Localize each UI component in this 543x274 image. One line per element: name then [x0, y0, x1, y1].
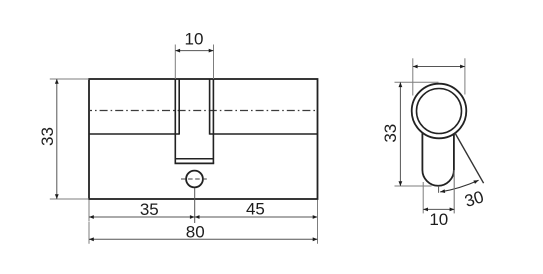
cam bottom upper line	[175, 158, 213, 160]
profile top dimension: left arrowhead	[413, 65, 418, 69]
svg-text:33: 33	[38, 127, 57, 146]
cylinder body front view	[89, 79, 318, 199]
profile top dimension: right arrowhead	[460, 65, 465, 69]
dimension 80: right extension line	[317, 200, 319, 244]
dimension 10 profile: right arrowhead	[450, 208, 455, 212]
dimension 10 top: right extension line	[213, 45, 215, 80]
dimension 33 profile: top arrowhead	[399, 82, 403, 87]
dimension 45: left arrowhead	[195, 215, 200, 219]
profile view inner circle	[417, 89, 462, 134]
cam slot inner right wall	[209, 79, 211, 135]
cam slot inner left wall	[178, 79, 180, 135]
dimension 10 profile: left extension line	[422, 182, 424, 213]
fixing screw hole circle	[186, 171, 203, 188]
dimension 80: left extension line	[88, 222, 90, 244]
angle arc right arrowhead	[473, 180, 478, 184]
svg-text:35: 35	[140, 200, 159, 219]
profile view stem outline	[422, 133, 454, 186]
dimension 80: left arrowhead	[89, 237, 94, 241]
dimension 33 left: dimension line	[56, 79, 58, 199]
dimension 35/45: left extension line	[88, 200, 90, 222]
svg-text:10: 10	[185, 30, 204, 49]
barrel bottom line right	[210, 133, 318, 135]
dimension 33 profile: bottom arrowhead	[399, 181, 403, 186]
dimension 33 profile: bottom extension line	[395, 185, 432, 187]
dimension 10 top: left arrowhead	[175, 49, 180, 53]
dimension 10 profile: dimension line	[423, 208, 454, 210]
dimension 10 top: left extension line	[174, 45, 176, 80]
dimension 10 profile: left arrowhead	[423, 208, 428, 212]
profile view outer circle	[412, 84, 467, 139]
dimension 10 top: right arrowhead	[209, 49, 214, 53]
profile top dimension: left extension line	[412, 58, 414, 95]
svg-text:45: 45	[246, 199, 265, 218]
angle arc left arrowhead	[440, 189, 445, 193]
cam slot outer left wall	[174, 79, 176, 163]
center axis dash-dot line	[89, 110, 318, 112]
dimension 33 left: top arrowhead	[55, 79, 59, 84]
dimension 35/45: middle extension line	[194, 188, 196, 223]
dimension 33 profile: top extension line	[395, 81, 439, 83]
svg-text:80: 80	[186, 223, 205, 242]
barrel bottom line left	[89, 133, 179, 135]
30 degree reference diagonal line	[455, 133, 484, 184]
dimension 33 left: top extension line	[50, 78, 89, 80]
dimension 35: left arrowhead	[89, 215, 94, 219]
dimension 33 left: bottom arrowhead	[55, 194, 59, 199]
dimension 33 profile: dimension line	[399, 82, 401, 186]
cam bottom lower line	[175, 162, 215, 164]
cam slot outer right wall	[212, 79, 214, 163]
svg-text:33: 33	[381, 124, 400, 143]
dimension 10 profile: right extension line	[453, 170, 455, 213]
dimension 35: right arrowhead	[190, 215, 195, 219]
profile top dimension: dimension line	[413, 66, 465, 68]
dimension 80: right arrowhead	[313, 237, 318, 241]
dimension 33 left: bottom extension line	[50, 198, 89, 200]
svg-text:10: 10	[429, 210, 448, 229]
dimension 35/45: dimension line	[89, 216, 318, 218]
dimension 10 top: dimension line	[175, 50, 213, 52]
profile top dimension: right extension line	[464, 58, 466, 94]
30 degree angle arc	[440, 180, 478, 192]
stem bottom center stub line	[438, 186, 440, 193]
dimension 80: dimension line	[89, 238, 318, 240]
screw hole dashed center line	[181, 178, 208, 180]
dimension 45: right arrowhead	[313, 215, 318, 219]
